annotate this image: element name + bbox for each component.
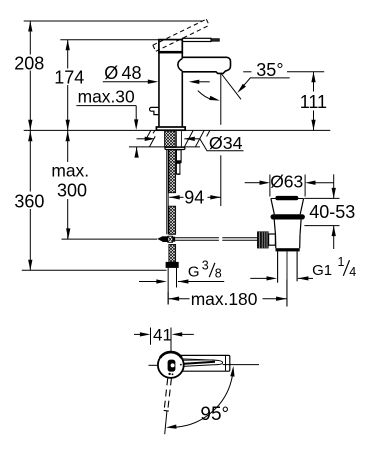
svg-text:Ø34: Ø34	[209, 133, 243, 153]
svg-text:111: 111	[300, 92, 327, 112]
svg-text:1: 1	[338, 255, 345, 269]
svg-text:4: 4	[349, 265, 356, 279]
svg-text:35°: 35°	[256, 60, 283, 80]
svg-text:95°: 95°	[200, 404, 229, 425]
svg-text:41: 41	[153, 325, 172, 344]
svg-text:max.180: max.180	[191, 289, 258, 309]
svg-text:94: 94	[184, 188, 204, 208]
svg-text:G: G	[188, 264, 200, 281]
svg-text:174: 174	[54, 68, 84, 88]
svg-text:360: 360	[14, 192, 44, 212]
svg-text:8: 8	[215, 267, 222, 281]
svg-text:G1: G1	[312, 262, 332, 279]
svg-text:208: 208	[14, 53, 44, 73]
svg-text:40-53: 40-53	[309, 202, 355, 222]
svg-text:max.30: max.30	[78, 87, 135, 107]
svg-text:300: 300	[57, 181, 87, 201]
svg-text:max.: max.	[51, 161, 89, 181]
svg-text:Ø48: Ø48	[104, 63, 141, 83]
svg-text:3: 3	[202, 259, 209, 273]
svg-text:Ø63: Ø63	[270, 172, 303, 192]
